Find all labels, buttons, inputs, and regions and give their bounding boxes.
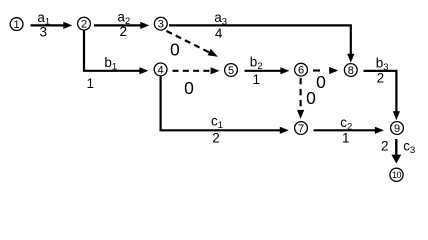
dashed dummy arrow node 6 down to node 7 xyxy=(297,78,304,119)
svg-text:4: 4 xyxy=(215,26,223,41)
svg-text:2: 2 xyxy=(81,19,87,31)
wire arrow a1 (node 1 to node 2) xyxy=(31,22,73,29)
wire arrow b3 (node 8 right then down to node 9) xyxy=(364,71,401,120)
svg-text:2: 2 xyxy=(119,24,127,39)
dashed dummy arrow node 3 to node 5 xyxy=(167,31,218,57)
svg-text:1: 1 xyxy=(342,130,350,145)
svg-text:2: 2 xyxy=(212,130,220,145)
wire arrow b2 (node 5 to node 6) xyxy=(245,67,290,74)
node 8 xyxy=(344,64,357,77)
svg-text:7: 7 xyxy=(298,123,304,135)
node 10 xyxy=(390,168,403,181)
svg-text:5: 5 xyxy=(228,65,234,77)
wire from node 2 down then arrow b1 to node 4 xyxy=(84,30,148,75)
svg-text:2: 2 xyxy=(377,71,385,86)
dashed dummy arrow node 6 to node 8 xyxy=(313,67,338,74)
node 4 xyxy=(154,63,167,76)
wire arrow c3 (node 9 down to node 10) xyxy=(391,139,401,164)
wire from node 4 down then arrow c1 to node 7 xyxy=(161,76,289,134)
wire arrow a2 (node 2 to node 3) xyxy=(94,22,149,29)
node 2 xyxy=(78,17,91,30)
dashed dummy arrow node 4 to node 5 xyxy=(173,67,220,74)
node 3 xyxy=(154,17,167,30)
svg-text:4: 4 xyxy=(158,64,164,76)
svg-text:0: 0 xyxy=(170,39,180,59)
wire arrow a3 (node 3 right then down to node 8) xyxy=(169,25,354,62)
svg-text:0: 0 xyxy=(306,88,316,108)
svg-text:0: 0 xyxy=(316,72,326,92)
svg-text:6: 6 xyxy=(298,65,304,77)
svg-text:0: 0 xyxy=(184,78,194,98)
svg-text:9: 9 xyxy=(394,123,400,135)
wire arrow c2 (node 7 to node 9) xyxy=(314,127,384,134)
svg-text:3: 3 xyxy=(158,19,164,31)
node 9 xyxy=(391,122,404,135)
node 7 xyxy=(295,122,308,135)
svg-text:1: 1 xyxy=(87,76,95,91)
node 6 xyxy=(295,63,308,76)
svg-text:2: 2 xyxy=(381,139,389,154)
node 5 xyxy=(225,64,238,77)
svg-text:1: 1 xyxy=(14,19,20,31)
svg-text:3: 3 xyxy=(40,24,48,39)
svg-text:1: 1 xyxy=(252,72,260,87)
node 1 xyxy=(10,18,23,31)
svg-text:10: 10 xyxy=(392,170,402,180)
svg-text:8: 8 xyxy=(348,65,354,77)
